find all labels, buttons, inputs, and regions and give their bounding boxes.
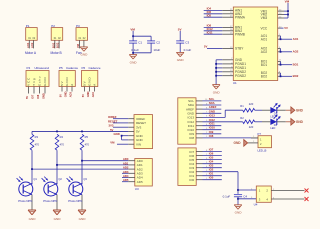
net label GND on P5 pin 2 [64, 91, 68, 97]
capacitor C3 [176, 41, 189, 45]
node U1 gnd junction 1 [215, 63, 217, 65]
svg-text:AO1: AO1 [261, 37, 268, 41]
ground below U1 [212, 85, 220, 95]
LED D1 [262, 103, 286, 118]
net label IO13 [209, 113, 216, 117]
svg-text:IO8: IO8 [189, 136, 194, 140]
node U1 gnd junction 2 [215, 67, 217, 69]
wire SCL [203, 100, 222, 102]
svg-text:5V: 5V [81, 94, 85, 97]
svg-text:Echo: Echo [38, 76, 42, 86]
op-amp U1 (motor driver TB6612) body [233, 7, 278, 85]
wire C3 to ground [179, 43, 181, 52]
U3 pin AD4 stub [128, 177, 135, 179]
wire R2 to LED [255, 121, 262, 123]
svg-text:BO1: BO1 [51, 42, 55, 48]
svg-text:VM: VM [130, 27, 135, 31]
svg-text:470: 470 [35, 142, 40, 146]
P7 pin 1 stub [251, 136, 258, 138]
U3 pin AD5 stub [128, 181, 135, 183]
pin 2 wire of P3 [83, 40, 85, 46]
wire SDA [203, 104, 222, 106]
wire to U1 BIN1 [204, 26, 223, 28]
net label AD4 on P6 pin 3 [91, 91, 95, 97]
U1 pin 14 (VM3) [261, 16, 284, 20]
node R3 tap [31, 168, 33, 170]
resistor R1 [240, 104, 254, 112]
node U1 gnd junction 4 [215, 75, 217, 77]
net label GND on P6 pin 2 [86, 91, 90, 97]
pin 1 wire of P3 [79, 40, 81, 48]
net label 5V on P6 pin 1 [81, 94, 85, 97]
node rail junction R4 [56, 131, 58, 133]
node BO1 junction [280, 64, 282, 66]
wire IO5 [203, 159, 222, 161]
svg-text:BO1: BO1 [261, 63, 268, 67]
wire GND pin tie [121, 136, 123, 140]
net label IO8 [207, 24, 212, 28]
net label SCL [209, 97, 215, 101]
wire R5 to collector [81, 150, 83, 184]
U4 pin4 wire [271, 197, 304, 199]
U3 pin AD0 stub [128, 160, 135, 162]
U1 pin 7 (GND) [222, 58, 242, 62]
value 0.1uF of C1 [131, 48, 139, 52]
net label IOREF on IOREF [108, 115, 117, 119]
wire 5V to C3 [179, 31, 181, 41]
wire VM bus right of U1 [284, 3, 288, 18]
P6 pin 3 wire [94, 87, 96, 92]
net label GND [209, 109, 215, 113]
wire to U1 PWMA [204, 16, 223, 18]
P8 pin 5V stub [128, 130, 134, 132]
svg-text:5V: 5V [204, 45, 208, 49]
svg-text:VM: VM [110, 141, 115, 145]
net label IO5 [207, 13, 212, 17]
svg-text:VM3: VM3 [261, 16, 268, 20]
svg-text:GND: GND [86, 91, 90, 97]
net label BO1 on P2 pin1 [51, 42, 55, 48]
U1 pin 11 (PGND2) [222, 74, 246, 78]
header pin GND stub [196, 112, 208, 114]
ground below Q3 [78, 210, 86, 221]
node GND tie junction [121, 135, 123, 137]
capacitor C1 [129, 41, 142, 45]
net label 5V [204, 45, 208, 49]
header pin IO0 stub [196, 178, 208, 180]
node R4 tap [56, 164, 58, 166]
svg-text:AO2: AO2 [261, 50, 268, 54]
header pin IO8 stub [196, 136, 208, 138]
U3 pin AD2 stub [128, 168, 135, 170]
U1 pin 24 (VM1) [261, 9, 284, 13]
net label 5V on 5V [110, 128, 114, 132]
net label AO1 [293, 37, 299, 41]
net label IO8 on P4 pin 3 [36, 94, 40, 99]
transistor Q2 (Photo NPN) [42, 177, 63, 210]
svg-text:U1: U1 [233, 81, 237, 85]
wire IO6 [203, 155, 222, 157]
wire to U1 BIN2 [204, 30, 223, 32]
ground below C4 [234, 205, 242, 215]
U3 pin AD3 stub [128, 172, 135, 174]
svg-text:GND: GND [296, 120, 304, 124]
svg-text:C4: C4 [243, 194, 247, 198]
U1 pin 20 (VCC) [260, 26, 282, 30]
capacitor C2 [147, 41, 160, 45]
header pin SCL stub [196, 99, 208, 101]
svg-text:P4: P4 [27, 66, 31, 70]
connector P2 (Motor B) [51, 24, 63, 55]
svg-text:VCC: VCC [27, 77, 31, 86]
svg-text:GND: GND [234, 141, 242, 145]
U4 pin2 wire [271, 189, 304, 191]
net label 5V on P5 pin 1 [59, 94, 63, 97]
U1 pin 5 (AO2) [261, 47, 281, 51]
connector P6 (Cadence) [82, 66, 101, 86]
svg-text:GND: GND [177, 58, 185, 62]
wire U4 pin3 [238, 198, 256, 200]
wire IO13 [203, 116, 226, 118]
net label AD3 [123, 170, 129, 174]
no-connect X on U4 pin4 [305, 197, 309, 201]
value 0.1uF of C4 [223, 194, 231, 198]
svg-text:GND: GND [213, 90, 221, 94]
svg-text:GND: GND [43, 77, 47, 86]
net label AO2 [293, 50, 299, 54]
wire IO9 [203, 133, 222, 135]
net label SDA [209, 101, 215, 105]
net label BO2 on P2 pin2 [56, 42, 60, 48]
svg-text:5V: 5V [83, 80, 87, 85]
svg-text:5V: 5V [178, 27, 182, 31]
svg-text:470: 470 [60, 142, 65, 146]
net label VM above U1 [285, 0, 290, 3]
svg-text:R5: R5 [85, 135, 89, 139]
power port GND at P7 pin2 [234, 140, 248, 147]
wire to U1 STBY [207, 48, 222, 50]
svg-text:VIN: VIN [136, 142, 141, 146]
net label GND on P4 pin 4 [42, 93, 46, 99]
svg-text:AO2: AO2 [293, 50, 299, 54]
net label 5V at U1 VCC [284, 26, 288, 30]
wire to P8 IOREF [113, 118, 128, 120]
connector U3 analog header body [135, 159, 153, 192]
net label IO2 [209, 168, 214, 172]
node R5 tap [81, 160, 83, 162]
P8 pin GND stub [128, 139, 134, 141]
wire to U1 PWMB [204, 33, 223, 35]
node VM junction b [287, 14, 289, 16]
U4 pin1 number [251, 188, 253, 190]
net label AD3 on P5 pin 3 [69, 91, 73, 97]
wire AO2 pin pair join [281, 49, 293, 52]
resistor R5 [80, 134, 89, 150]
svg-text:VM: VM [76, 44, 80, 48]
svg-text:10uF: 10uF [153, 48, 160, 52]
net label IO3 [209, 164, 214, 168]
P8 pin 3V3 stub [128, 126, 134, 128]
svg-text:C2: C2 [156, 41, 160, 45]
wire 5V rail [32, 131, 128, 134]
svg-text:AO1: AO1 [293, 37, 299, 41]
svg-text:GND: GND [296, 109, 304, 113]
header pin SDA stub [196, 103, 208, 105]
net label IO11 [209, 122, 215, 126]
net label IO12 [207, 27, 214, 31]
wire U1 ground bus [216, 60, 222, 85]
P4 pin 3 wire [39, 87, 41, 94]
U1 pin 2 (PGND1) [222, 62, 246, 66]
net label GND on GND [114, 132, 120, 136]
node VM junction [132, 35, 134, 37]
svg-text:Cadence: Cadence [89, 66, 101, 70]
U1 pin 6 (AO2) [261, 50, 281, 54]
wire 5V at U1 VCC [281, 27, 284, 29]
U1 pin 1 (AO1) [261, 34, 281, 38]
node BO2 junction [280, 75, 282, 77]
wire IO10 [203, 129, 222, 131]
svg-text:A: A [93, 83, 97, 86]
connector P5 (Cadence) [59, 66, 78, 86]
svg-text:BO2: BO2 [293, 74, 299, 78]
wire AD0 [82, 160, 128, 162]
svg-text:PWMB: PWMB [235, 32, 245, 36]
U1 pin 13 (VM2) [261, 13, 284, 17]
pin 1 wire of P1 [28, 40, 30, 48]
svg-text:Q3: Q3 [83, 177, 87, 181]
svg-text:BO2: BO2 [56, 42, 60, 48]
svg-text:GND: GND [79, 217, 87, 221]
svg-text:Q1: Q1 [33, 177, 37, 181]
net label IO12 [209, 118, 216, 122]
svg-text:AD5: AD5 [123, 178, 129, 182]
P5 pin 2 wire [66, 87, 68, 92]
net label IO6 [209, 152, 214, 156]
net label AO2 on P1 pin2 [30, 42, 34, 48]
node cap ground junction [132, 52, 134, 54]
U1 pin 22 (AIN2) [222, 12, 242, 16]
svg-text:220: 220 [249, 102, 254, 106]
U1 pin 19 (STBY) [222, 47, 244, 51]
value 220 of R1 [249, 102, 254, 106]
svg-text:GND: GND [54, 217, 62, 221]
connector P3 (Fan) [76, 24, 88, 55]
wire VM to junction [132, 31, 134, 41]
wire AREF [203, 108, 222, 110]
svg-text:220: 220 [249, 125, 254, 129]
wire AD1 [57, 164, 128, 166]
ground below P3 [80, 47, 88, 57]
svg-text:LED: LED [270, 127, 275, 130]
net label RESET on RESET [108, 119, 118, 123]
P8 pin VIN stub [128, 143, 134, 145]
net label BO2 [293, 74, 299, 78]
wire to P8 RESET [113, 122, 128, 124]
svg-text:GND: GND [80, 53, 88, 57]
svg-text:GND: GND [29, 217, 37, 221]
net label IO8 [209, 134, 214, 138]
svg-text:Ultrasound: Ultrasound [35, 66, 50, 70]
svg-text:LED_B: LED_B [258, 148, 267, 152]
wire R3 to collector [31, 150, 33, 184]
pin 1 wire of P2 [54, 40, 56, 48]
net label 3V3 on 3V3 [109, 124, 114, 128]
net label AD1 [123, 161, 129, 165]
wire IO2 [203, 171, 239, 173]
net label AD2 [123, 166, 129, 170]
wire BO2 pin pair join [281, 73, 293, 76]
P8 pin RESET stub [128, 122, 134, 124]
header pin IO10 stub [196, 128, 208, 130]
svg-text:PWMA: PWMA [235, 15, 246, 19]
net label BO1 [293, 63, 299, 67]
svg-text:GND: GND [64, 91, 68, 97]
power port GND right of D1 [286, 107, 304, 113]
svg-text:5V: 5V [59, 94, 63, 97]
wire C4 to ground [237, 197, 239, 205]
U1 pin 21 (AIN1) [222, 9, 242, 13]
net label AO1 on P1 pin1 [26, 42, 30, 48]
wire to P8 VIN [117, 143, 128, 145]
wire to P8 GND [122, 139, 129, 141]
svg-text:AD5: AD5 [137, 180, 143, 184]
net label VM on P3 pin1 [76, 44, 80, 48]
svg-text:GND: GND [65, 77, 69, 86]
wire C2 bottom to ground node [133, 43, 151, 53]
svg-text:VM: VM [285, 0, 290, 3]
connector P8 power header body [134, 115, 153, 149]
wire to P8 5V [32, 130, 128, 132]
transistor U4 body (4-pin part) [254, 186, 272, 206]
header pin AREF stub [196, 107, 208, 109]
resistor R3 [30, 134, 39, 150]
svg-text:IO5: IO5 [207, 13, 212, 17]
wire IO12 [203, 121, 243, 123]
svg-text:Motor B: Motor B [51, 51, 62, 55]
net label IO4 [209, 160, 214, 164]
P7 pin 2 stub [248, 141, 258, 143]
connector P1 (Motor A) [25, 24, 37, 55]
wire R1 to LED [255, 109, 262, 111]
svg-text:AO2: AO2 [30, 42, 34, 48]
connector P7 LED_B [258, 132, 272, 152]
ground below C1 C2 [129, 55, 137, 65]
wire IO0 [203, 179, 222, 181]
node rail junction R5 [81, 131, 83, 133]
net label IO7 [209, 148, 214, 152]
wire to U1 AIN2 [204, 13, 223, 15]
svg-text:PGND2: PGND2 [235, 74, 246, 78]
U3 pin AD1 stub [128, 164, 135, 166]
net label IO11 [207, 30, 213, 34]
transistor Q3 (Photo NPN) [67, 177, 88, 210]
wire AD4 [122, 177, 128, 179]
P4 pin 4 wire [44, 87, 46, 94]
ground below C3 [176, 52, 184, 62]
header pin IO5 stub [196, 158, 208, 160]
P8 pin GND stub [128, 135, 134, 137]
no-connect X on U4 pin2 [305, 189, 309, 193]
P5 pin 1 wire [61, 87, 63, 92]
svg-text:IO8: IO8 [36, 94, 40, 99]
svg-text:0.1uF: 0.1uF [131, 48, 139, 52]
node U4 pin1 junction [237, 189, 239, 191]
header pin IO3 stub [196, 166, 208, 168]
wire R4 to collector [56, 150, 58, 184]
header pin IO2 stub [196, 170, 208, 172]
svg-text:GND: GND [235, 211, 243, 215]
svg-text:Photo NPN: Photo NPN [18, 199, 32, 203]
net label AD0 [123, 157, 129, 161]
node AO2 junction [280, 51, 282, 53]
net label AD4 [123, 174, 129, 178]
net label VM on VIN [110, 141, 115, 145]
wire to U1 AIN1 [204, 9, 223, 11]
wire U4 pin1 [238, 189, 256, 191]
header pin IO13 stub [196, 116, 208, 118]
resistor R4 [55, 134, 64, 150]
svg-text:0.1uF: 0.1uF [223, 194, 231, 198]
node U1 gnd junction 3 [215, 71, 217, 73]
value 220 of R2 [249, 125, 254, 129]
U1 pin 10 (PGND2) [222, 70, 246, 74]
node VM junction a [287, 10, 289, 12]
wire BO1 pin pair join [281, 61, 293, 64]
svg-text:5V: 5V [25, 96, 29, 99]
wire AD5 [122, 181, 128, 183]
U1 pin 9 (BO2) [261, 75, 281, 79]
U4 pin3 number [251, 197, 253, 199]
svg-text:GND: GND [130, 60, 138, 64]
svg-text:IO13: IO13 [187, 116, 194, 120]
svg-text:STBY: STBY [235, 47, 244, 51]
wire IO11 [203, 125, 222, 127]
net label IO10 [209, 126, 216, 130]
net label 5V above C3 [178, 27, 182, 31]
svg-text:IO7: IO7 [31, 94, 35, 99]
net label IO0 [209, 176, 214, 180]
wire GND [203, 112, 222, 114]
P6 pin 2 wire [89, 87, 91, 92]
wire AD2 [32, 168, 128, 170]
wire IO8 [203, 137, 259, 139]
net label AREF [209, 105, 217, 109]
svg-text:GND: GND [88, 77, 92, 86]
svg-text:Motor A: Motor A [25, 51, 37, 55]
svg-text:R2: R2 [240, 116, 244, 120]
header pin IO12 stub [196, 120, 208, 122]
svg-text:GND: GND [42, 93, 46, 99]
wire AO1 pin pair join [281, 36, 293, 39]
net label VM above C1 [130, 27, 135, 31]
svg-text:AD3: AD3 [69, 91, 73, 97]
pin 2 wire of P1 [33, 40, 35, 48]
connector P4 (Ultrasound) [26, 66, 49, 86]
svg-text:A: A [70, 83, 74, 86]
svg-text:R4: R4 [60, 135, 64, 139]
svg-text:IO11: IO11 [207, 30, 213, 34]
wire C1 bottom to ground node [132, 43, 134, 54]
power port GND right of D2 [286, 119, 304, 125]
svg-text:Photo NPN: Photo NPN [68, 199, 82, 203]
svg-text:Photo NPN: Photo NPN [43, 199, 57, 203]
LED D2 [262, 115, 286, 130]
svg-text:P5: P5 [59, 66, 63, 70]
U1 pin 2 (AO1) [261, 37, 281, 41]
svg-text:IO8: IO8 [209, 134, 214, 138]
U1 pin 8 (BO2) [261, 71, 281, 75]
